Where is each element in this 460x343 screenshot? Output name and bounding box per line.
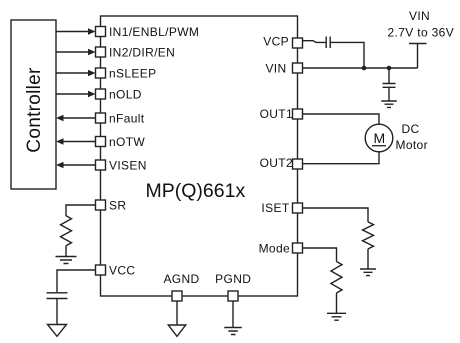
wire Controller to IN2	[56, 51, 89, 53]
wire capacitor to VIN node	[330, 42, 364, 68]
wire resistor to ground	[65, 246, 67, 256]
svg-text:VCP: VCP	[263, 34, 289, 48]
svg-text:nOTW: nOTW	[109, 135, 145, 149]
node junction (VCP cap)	[362, 66, 367, 71]
wire Mode pin to resistor	[303, 248, 337, 262]
pin IN2/DIR/EN	[96, 47, 106, 57]
motor underline	[372, 145, 386, 147]
ground triangle (VCC)	[48, 325, 67, 337]
arrow to Controller (VISEN)	[56, 162, 64, 168]
pin IN1/ENBL/PWM	[96, 27, 106, 37]
wire Controller to nOLD	[56, 93, 89, 95]
wire resistor to ground	[367, 249, 369, 269]
ground triangle (AGND)	[168, 325, 185, 336]
wire Controller to IN1	[56, 31, 89, 33]
svg-text:nOLD: nOLD	[109, 87, 142, 101]
pin nSLEEP	[96, 68, 106, 78]
wire VCC pin to capacitor	[57, 270, 96, 292]
pin OUT1	[293, 109, 303, 119]
pin AGND	[172, 291, 182, 301]
svg-text:ISET: ISET	[261, 201, 289, 215]
pin VIN	[293, 63, 303, 73]
arrowheads	[56, 28, 96, 168]
resistor R-SR	[61, 216, 72, 246]
IC U1 MP(Q)661x body	[101, 16, 298, 296]
arrow to Controller (nFault)	[56, 115, 64, 121]
wire input cap to ground	[388, 87, 390, 101]
svg-text:2.7V to 36V: 2.7V to 36V	[388, 25, 455, 39]
wire PGND to ground	[232, 301, 234, 327]
pin OUT2	[293, 159, 303, 169]
svg-text:Controller: Controller	[24, 67, 45, 153]
svg-text:DC: DC	[402, 122, 420, 136]
capacitor C-VCC	[47, 293, 68, 299]
svg-text:SR: SR	[109, 198, 126, 212]
svg-text:nFault: nFault	[109, 111, 145, 125]
wire Controller to nSLEEP	[56, 72, 89, 74]
ground earth (C-VIN)	[381, 101, 397, 107]
svg-text:VISEN: VISEN	[109, 158, 147, 172]
wire nFault to Controller	[63, 117, 96, 119]
svg-text:OUT2: OUT2	[260, 156, 293, 170]
svg-text:AGND: AGND	[163, 272, 199, 286]
wire AGND to ground	[176, 301, 178, 325]
svg-text:VIN: VIN	[265, 61, 286, 75]
pin ISET	[293, 203, 303, 213]
arrow into IN2	[88, 49, 96, 55]
wire VIN node to input cap	[388, 68, 390, 83]
pin Mode	[293, 243, 303, 253]
capacitor C-VIN	[383, 84, 396, 88]
wire resistor to ground	[336, 293, 338, 313]
wire VIN pin to supply	[303, 67, 418, 69]
svg-text:VIN: VIN	[409, 9, 430, 23]
arrow into IN1	[88, 28, 96, 34]
motor M1	[365, 124, 393, 152]
svg-text:VCC: VCC	[109, 263, 135, 277]
ground earth (SR)	[56, 257, 77, 264]
pin SR	[96, 200, 106, 210]
arrow to Controller (nOTW)	[56, 138, 64, 144]
wire VISEN to Controller	[63, 164, 96, 166]
pin nFault	[96, 113, 106, 123]
pin VISEN	[96, 160, 106, 170]
resistor R-ISET	[363, 222, 374, 249]
svg-text:PGND: PGND	[215, 272, 251, 286]
pin nOLD	[96, 89, 106, 99]
wire ISET pin to resistor	[303, 208, 369, 222]
svg-text:OUT1: OUT1	[260, 107, 293, 121]
wire OUT1 to motor	[303, 114, 380, 124]
wire motor to OUT2	[303, 152, 380, 164]
wire capacitor to ground	[56, 299, 58, 325]
pin VCC	[96, 265, 106, 275]
pin PGND	[228, 291, 238, 301]
svg-text:MP(Q)661x: MP(Q)661x	[146, 180, 246, 202]
wire SR pin to resistor	[66, 205, 96, 216]
pin nOTW	[96, 137, 106, 147]
pin squares	[96, 27, 303, 302]
wire VCP pin to capacitor	[303, 41, 326, 43]
svg-text:Mode: Mode	[259, 241, 290, 255]
svg-text:IN1/ENBL/PWM: IN1/ENBL/PWM	[109, 25, 199, 39]
controller box	[11, 20, 56, 189]
node junction (input cap)	[387, 66, 392, 71]
ground earth (ISET)	[360, 269, 376, 276]
svg-text:Motor: Motor	[396, 138, 428, 152]
ground earth (Mode)	[327, 313, 346, 320]
arrow into nOLD	[88, 91, 96, 97]
svg-text:nSLEEP: nSLEEP	[109, 66, 156, 80]
ground earth (PGND)	[224, 328, 242, 335]
pin VCP	[293, 38, 303, 48]
capacitor C-VCP	[326, 37, 330, 49]
supply terminal VIN	[409, 44, 427, 69]
resistor R-Mode	[331, 262, 342, 293]
arrow into nSLEEP	[88, 70, 96, 76]
wire nOTW to Controller	[63, 141, 96, 143]
svg-text:IN2/DIR/EN: IN2/DIR/EN	[109, 45, 175, 59]
svg-text:M: M	[373, 130, 385, 146]
